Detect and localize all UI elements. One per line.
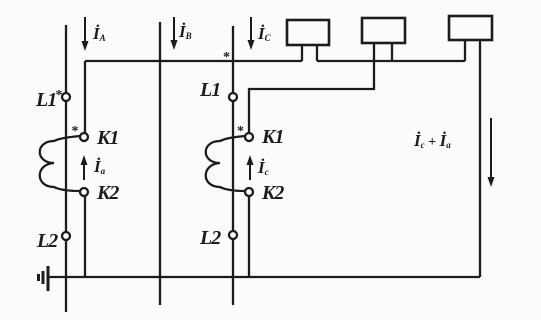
svg-text:İc: İc <box>257 158 269 177</box>
svg-text:İa: İa <box>93 157 106 176</box>
svg-text:L2: L2 <box>199 227 221 249</box>
svg-text:İc + İa: İc + İa <box>413 131 451 150</box>
svg-text:*: * <box>72 124 79 139</box>
svg-text:İC: İC <box>257 24 272 43</box>
svg-text:L2: L2 <box>36 230 58 252</box>
svg-text:L1: L1 <box>35 89 56 111</box>
svg-text:K1: K1 <box>261 126 283 148</box>
svg-text:L1: L1 <box>199 79 220 101</box>
svg-text:*: * <box>223 50 230 65</box>
svg-text:*: * <box>56 88 63 103</box>
svg-text:*: * <box>237 124 244 139</box>
svg-text:İB: İB <box>178 22 192 41</box>
svg-text:K2: K2 <box>96 182 119 204</box>
svg-text:İA: İA <box>92 24 106 43</box>
svg-text:K2: K2 <box>261 182 284 204</box>
svg-text:K1: K1 <box>96 127 118 149</box>
